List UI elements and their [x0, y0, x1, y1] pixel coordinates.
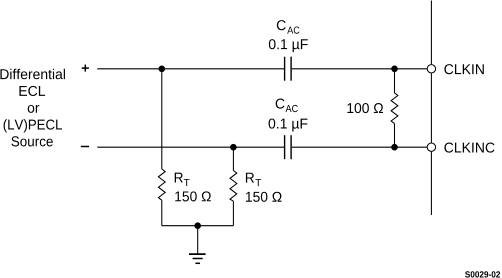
wire ground stem	[197, 226, 199, 254]
label RT2	[246, 173, 261, 186]
wire top rail right (CAC to CLKIN)	[292, 68, 427, 70]
resistor RT2 zigzag	[230, 171, 237, 202]
resistor R 100 ohm bottom lead	[394, 124, 396, 148]
junction node bottom-right	[391, 144, 398, 151]
junction node top-left	[159, 66, 166, 73]
value label 0.1 uF top	[269, 39, 308, 52]
wire left branch from + rail down to RT1	[161, 69, 163, 169]
label RT1	[175, 173, 190, 186]
capacitor C_AC bottom	[285, 135, 292, 159]
figure code S0029-02	[465, 271, 500, 277]
node label + (positive input)	[82, 65, 89, 72]
wire bottom rail right (CAC to CLKINC)	[292, 146, 427, 148]
source description text: Differential ECL or (LV)PECL Source	[0, 69, 65, 147]
wire right vertical below CLKINC	[430, 152, 432, 215]
resistor R 100 ohm top lead	[394, 69, 396, 93]
node label - (negative input)	[81, 146, 89, 148]
value label 100 ohm	[347, 103, 383, 113]
label C_AC top	[277, 20, 300, 34]
wire bottom rail left (- to CAC)	[97, 146, 284, 148]
capacitor C_AC top	[285, 57, 292, 81]
resistor RT1 zigzag	[158, 169, 165, 200]
ground	[189, 254, 206, 263]
value label 150 ohm RT1	[175, 191, 211, 201]
resistor R 100 ohm zigzag	[391, 93, 398, 124]
junction node top-right	[391, 66, 398, 73]
pin label CLKINC	[444, 142, 494, 152]
junction node bottom-mid	[230, 144, 237, 151]
wire right vertical above CLKIN	[430, 1, 432, 65]
value label 150 ohm RT2	[246, 192, 282, 202]
terminal CLKIN open circle	[427, 65, 435, 73]
label C_AC bottom	[276, 98, 298, 112]
wire bottom joining RT1 RT2	[162, 225, 234, 227]
value label 0.1 uF bottom	[269, 118, 308, 131]
wire RT2 bottom lead	[232, 201, 234, 226]
wire RT1 bottom lead	[161, 200, 163, 226]
wire top rail left (+ to CAC)	[97, 68, 284, 70]
junction node ground	[194, 222, 201, 229]
wire right vertical between CLKIN and CLKINC	[430, 73, 432, 142]
terminal CLKINC open circle	[427, 143, 435, 151]
pin label CLKIN	[444, 64, 483, 74]
wire right branch from - rail down to RT2	[232, 147, 234, 170]
